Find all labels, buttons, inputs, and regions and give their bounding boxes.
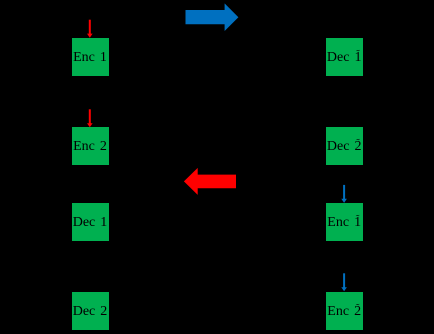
block Dec 1-tilde <box>326 38 363 76</box>
block Dec 1 <box>72 203 109 241</box>
block Enc 2-tilde <box>326 292 363 330</box>
arrow red small into Enc 2 <box>87 109 93 127</box>
arrow red small into Enc 1 <box>87 20 93 38</box>
arrow blue small into Enc 1-tilde <box>341 185 347 203</box>
block Enc 1-tilde <box>326 203 363 241</box>
block Dec 2 <box>72 292 109 330</box>
block Dec 2-tilde <box>326 127 363 165</box>
arrow red big left (backward pass) <box>184 168 236 195</box>
block Enc 2 <box>72 127 109 165</box>
block Enc 1 <box>72 38 109 76</box>
arrow blue small into Enc 2-tilde <box>341 273 347 291</box>
arrow blue big right (forward pass) <box>186 3 239 31</box>
